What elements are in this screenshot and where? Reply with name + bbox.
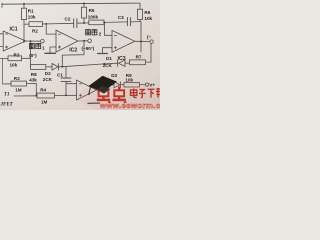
- svg-text:(−90°): (−90°): [82, 46, 95, 51]
- svg-text:100k: 100k: [88, 14, 99, 19]
- svg-text:R4: R4: [40, 88, 46, 93]
- svg-text:R8: R8: [31, 72, 37, 77]
- svg-text:1: 1: [42, 46, 45, 51]
- svg-text:43k: 43k: [29, 78, 37, 83]
- svg-text:10k: 10k: [28, 15, 36, 20]
- svg-text:C1: C1: [57, 72, 63, 77]
- svg-text:R6: R6: [144, 10, 150, 15]
- svg-text:(−: (−: [147, 35, 152, 40]
- svg-text:10k: 10k: [144, 16, 152, 21]
- svg-text:C2: C2: [65, 17, 71, 22]
- svg-text:2CK: 2CK: [43, 77, 53, 82]
- svg-text:R2: R2: [32, 29, 38, 34]
- svg-text:IC3: IC3: [118, 56, 126, 62]
- svg-text:IC1: IC1: [10, 27, 18, 33]
- svg-text:10k: 10k: [125, 78, 133, 83]
- svg-text:R1: R1: [28, 9, 34, 14]
- svg-text:R3: R3: [14, 76, 20, 81]
- svg-text:R2: R2: [14, 52, 20, 57]
- svg-text:2: 2: [99, 31, 102, 36]
- svg-text:R7: R7: [136, 55, 142, 60]
- svg-text:D3: D3: [111, 73, 117, 78]
- svg-text:1M: 1M: [15, 88, 22, 93]
- svg-text:R5: R5: [89, 8, 95, 13]
- svg-text:IC2: IC2: [69, 48, 77, 54]
- svg-text:2CK: 2CK: [103, 63, 113, 68]
- svg-text:JFET: JFET: [0, 103, 14, 108]
- svg-text:10k: 10k: [10, 63, 18, 68]
- svg-text:D2: D2: [45, 71, 51, 76]
- svg-text:T1: T1: [4, 93, 10, 98]
- svg-text:D1: D1: [106, 56, 112, 61]
- svg-text:C3: C3: [118, 15, 124, 20]
- svg-text:(0°): (0°): [29, 53, 37, 58]
- svg-text:1M: 1M: [41, 100, 48, 105]
